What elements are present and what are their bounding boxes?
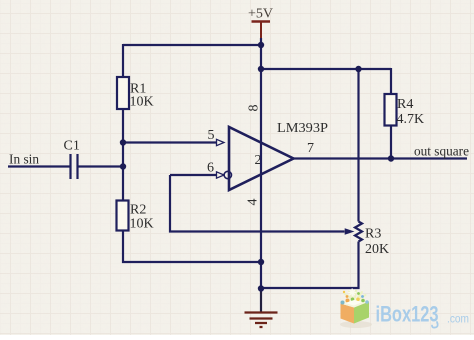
R3 wiper arrow: [345, 228, 355, 235]
ground stem: [260, 289, 262, 312]
junction node at +5V rail: [258, 42, 264, 48]
wire left rail upper: [122, 44, 124, 77]
wire pins 8/4 vertical through op-amp: [260, 45, 262, 312]
pin 6 inverting bubble: [224, 171, 231, 178]
logo box shadow: [340, 321, 372, 328]
svg-text:LM393P: LM393P: [277, 121, 328, 136]
svg-text:5: 5: [208, 128, 215, 143]
pin 5 input arrow: [217, 139, 225, 145]
junction node R1/R2 to pin5: [120, 139, 126, 145]
junction node at right rail: [258, 66, 264, 72]
logo box top opening: [341, 299, 370, 308]
svg-text:R4: R4: [397, 97, 413, 112]
power +5V bar symbol: [252, 20, 271, 23]
svg-text:C1: C1: [64, 139, 80, 154]
svg-text:10K: 10K: [130, 217, 154, 232]
junction node bottom rail: [258, 259, 264, 265]
resistor R2: [117, 201, 129, 231]
wire output pin 7: [294, 157, 468, 159]
junction node C1 input: [120, 163, 126, 169]
capacitor C1: [71, 154, 78, 179]
svg-text:4.7K: 4.7K: [397, 112, 425, 127]
wire +5V stem to junction: [260, 38, 262, 45]
resistor R1: [117, 77, 129, 109]
logo sparkle star: [348, 289, 356, 297]
potentiometer R3 zigzag: [355, 222, 362, 242]
svg-text:R2: R2: [130, 203, 146, 218]
svg-text:20K: 20K: [365, 242, 389, 257]
svg-text:7: 7: [307, 141, 314, 156]
wire R4 top lead: [390, 68, 392, 94]
op-amp U2 LM393P triangle: [229, 127, 294, 190]
svg-text:+5V: +5V: [248, 7, 273, 22]
logo box left face: [341, 304, 355, 324]
svg-text:out square: out square: [414, 145, 469, 160]
logo rim confetti: [341, 301, 345, 305]
wire R3 top feed from rail: [357, 69, 359, 222]
logo inner glow: [345, 300, 362, 306]
wire C1 to node: [79, 165, 124, 167]
logo box right face: [354, 302, 369, 324]
logo sparkle burst: [345, 291, 366, 299]
wire feedback from pin 6 down and right to R3 wiper: [170, 175, 345, 232]
wire R4 bottom lead: [390, 126, 392, 159]
power +5V stem: [260, 22, 262, 39]
junction node R4 to output: [388, 155, 394, 161]
pin 6 input arrow: [217, 172, 225, 178]
wire left rail middle: [122, 109, 124, 201]
svg-text:8: 8: [247, 105, 262, 112]
junction node R3 top feed: [355, 66, 361, 72]
ground symbol bars: [245, 313, 278, 328]
svg-text:iBox123: iBox123: [376, 302, 439, 327]
svg-text:In sin: In sin: [9, 153, 39, 168]
logo confetti specks: [346, 295, 349, 298]
svg-text:6: 6: [207, 161, 214, 176]
svg-text:.com: .com: [447, 314, 469, 326]
svg-text:R3: R3: [365, 227, 381, 242]
wire top right rail: [261, 68, 391, 70]
wire top rail: [123, 44, 261, 46]
svg-text:4: 4: [246, 199, 261, 206]
junction node ground rail: [258, 285, 264, 291]
wire R3 bottom lead to ground rail: [261, 242, 359, 289]
logo text 3 swash: [432, 322, 438, 328]
resistor R4: [385, 94, 397, 126]
wire node to pin 5: [123, 141, 217, 143]
wire pin 6 horizontal: [170, 174, 217, 176]
svg-text:10K: 10K: [130, 95, 154, 110]
wire left rail lower and bottom rail: [123, 231, 261, 263]
wire input to C1: [8, 165, 70, 167]
